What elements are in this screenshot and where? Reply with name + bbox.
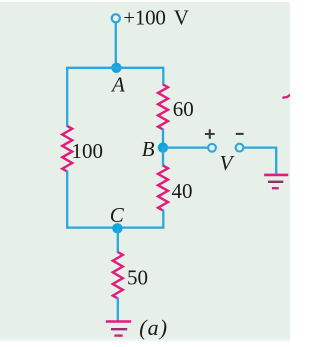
svg-text:40: 40 [172, 179, 193, 203]
minus sign [236, 133, 244, 135]
ground right (bar 2) [268, 181, 283, 183]
svg-text:A: A [110, 73, 125, 97]
wire left branch upper [66, 67, 68, 127]
resistor 40 [158, 166, 168, 211]
wire top horizontal A row [67, 67, 163, 69]
wire node C to resistor 50 [117, 228, 119, 253]
wire bottom horizontal C row [66, 226, 163, 228]
wire right branch A to resistor 60 [162, 67, 164, 86]
terminal V minus (open circle) [236, 144, 244, 152]
terminal V plus (open circle) [208, 144, 216, 152]
svg-text:100: 100 [72, 139, 104, 163]
wire node B to plus terminal [163, 146, 208, 148]
svg-text:(a): (a) [139, 315, 168, 340]
svg-text:B: B [142, 137, 155, 161]
wire node B to resistor 40 [162, 148, 164, 167]
ground right (bar 1) [264, 174, 288, 177]
wire left branch lower [66, 171, 68, 229]
partial resistor of adjacent figure at right edge [282, 95, 290, 98]
wire minus terminal to right ground [244, 148, 277, 174]
wire resistor 60 to node B [162, 129, 164, 149]
node A junction dot [111, 63, 121, 73]
ground bottom (bar 2) [111, 328, 127, 330]
wire resistor 50 to bottom ground [117, 298, 119, 322]
node B junction dot [158, 142, 168, 152]
svg-text:V: V [220, 151, 235, 175]
svg-text:60: 60 [173, 97, 194, 121]
ground right (bar 3) [272, 187, 279, 189]
ground bottom (bar 1) [106, 320, 131, 323]
resistor 50 [113, 252, 123, 299]
svg-text:50: 50 [127, 265, 148, 289]
plus sign [205, 129, 215, 139]
svg-text:C: C [110, 203, 125, 227]
node C junction dot [112, 223, 122, 233]
wire resistor 40 to C row [162, 210, 164, 229]
resistor 100 [62, 126, 72, 172]
resistor 60 [158, 85, 168, 130]
wire supply to node A [115, 23, 117, 68]
ground bottom (bar 3) [114, 334, 122, 336]
terminal +100V (open circle) [112, 14, 120, 22]
svg-text:+100 V: +100 V [123, 6, 189, 30]
